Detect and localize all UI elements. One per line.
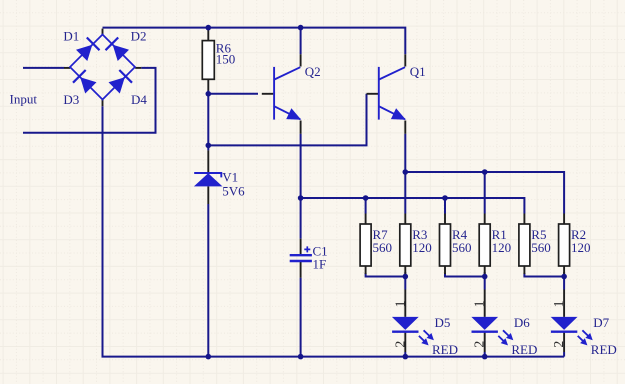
wire input lower lead to bridge right vertex bbox=[23, 68, 156, 133]
svg-text:1: 1 bbox=[551, 300, 566, 307]
wire R4 riser bbox=[444, 198, 446, 214]
pin R3 top bbox=[404, 214, 406, 225]
pin R4 bottom bbox=[444, 266, 446, 274]
pin V1 cathode bbox=[207, 150, 209, 172]
wire D6 cathode to bottom rail bbox=[484, 352, 486, 357]
diode D4 (bottom-right arm) bbox=[109, 70, 133, 94]
junction R6 bottom / Q2 base bbox=[206, 91, 212, 97]
pin Q1 collector bbox=[404, 54, 406, 66]
wire R6 bottom node vertical bbox=[207, 91, 209, 151]
svg-text:2: 2 bbox=[551, 341, 566, 348]
junction R6 top on rail bbox=[206, 25, 212, 31]
pin D7 anode (1) bbox=[563, 290, 565, 317]
wire C1 bottom to bottom rail bbox=[300, 278, 302, 357]
pin Q2 collector bbox=[300, 54, 302, 66]
pin C1 positive bbox=[300, 239, 302, 254]
svg-text:RED: RED bbox=[432, 342, 458, 357]
wire top rail from bridge to Q1 collector bbox=[103, 28, 406, 55]
pin R6 top bbox=[207, 29, 209, 41]
svg-text:D2: D2 bbox=[131, 28, 147, 43]
svg-text:RED: RED bbox=[591, 342, 617, 357]
wire V1 cathode-lead to bottom rail bbox=[207, 204, 209, 357]
svg-text:D1: D1 bbox=[63, 28, 79, 43]
svg-text:1F: 1F bbox=[313, 257, 327, 272]
wire Q2 emitter down to C1 bbox=[300, 134, 302, 239]
resistor R7 body bbox=[360, 224, 371, 266]
junction R1 on 120 bus bbox=[482, 169, 488, 175]
wire input upper lead bbox=[23, 67, 64, 69]
junction R7 on 560 bus bbox=[363, 195, 369, 201]
junction C1 on bottom rail bbox=[298, 354, 304, 360]
LED D7 body bbox=[551, 317, 593, 346]
wire R4 bottom to D6 node bbox=[445, 273, 485, 277]
pin D5 anode (1) bbox=[404, 290, 406, 317]
pin bridge right vertex bbox=[135, 67, 141, 69]
pin Q2 emitter bbox=[300, 121, 302, 134]
pin R5 top bbox=[523, 214, 525, 225]
wire R5 bottom to D7 node bbox=[524, 273, 564, 277]
pin Q1 base bbox=[367, 93, 379, 95]
pin R1 top bbox=[484, 214, 486, 225]
wire R2 bottom to D7 anode bbox=[563, 272, 565, 290]
pin R6 bottom bbox=[207, 79, 209, 90]
svg-text:RED: RED bbox=[511, 342, 537, 357]
svg-text:120: 120 bbox=[571, 240, 591, 255]
junction V1 on bottom rail bbox=[206, 354, 212, 360]
pin R7 top bbox=[365, 214, 367, 225]
resistor R4 body bbox=[440, 224, 451, 266]
wire Q2 collector to top rail bbox=[300, 28, 302, 55]
wire D5 cathode to bottom rail bbox=[404, 352, 406, 357]
junction C1 node on 560 bus bbox=[298, 195, 304, 201]
junction D5 anode node bbox=[403, 274, 409, 280]
svg-text:V1: V1 bbox=[222, 169, 238, 184]
LED D5 body bbox=[392, 317, 434, 346]
svg-text:D6: D6 bbox=[514, 315, 530, 330]
pin bridge left vertex bbox=[64, 67, 70, 69]
pin R2 bottom bbox=[563, 266, 565, 274]
pin R2 top bbox=[563, 214, 565, 225]
pin Q1 emitter bbox=[404, 121, 406, 134]
junction V1 / Q1 base bbox=[206, 143, 212, 149]
pin R7 bottom bbox=[365, 266, 367, 274]
pin bridge bottom vertex bbox=[102, 100, 104, 107]
pin R4 top bbox=[444, 214, 446, 225]
wire node R6 to Q2 base bbox=[208, 93, 258, 95]
pin D6 anode (1) bbox=[484, 290, 486, 317]
pin V1 anode bbox=[207, 186, 209, 204]
diode D3 (bottom-left arm) bbox=[73, 70, 97, 94]
resistor R5 body bbox=[519, 224, 530, 266]
wire node to Q1 base bbox=[208, 94, 366, 146]
LED D6 body bbox=[471, 317, 513, 346]
resistor R1 body bbox=[479, 224, 490, 266]
svg-text:1: 1 bbox=[392, 300, 407, 307]
svg-text:Q2: Q2 bbox=[305, 64, 321, 79]
transistor Q2 body bbox=[274, 67, 301, 120]
wire D7 cathode to bottom rail bbox=[563, 352, 565, 357]
bridge rectifier diamond outline bbox=[70, 35, 135, 100]
wire R7 riser bbox=[365, 198, 367, 214]
junction D6 on bottom rail bbox=[482, 354, 488, 360]
svg-text:1: 1 bbox=[472, 300, 487, 307]
pin bridge top vertex bbox=[102, 29, 104, 35]
pin R1 bottom bbox=[484, 266, 486, 274]
svg-text:120: 120 bbox=[412, 240, 432, 255]
svg-text:5V6: 5V6 bbox=[222, 183, 245, 198]
wire bridge bottom to ground rail (bottom bus) bbox=[103, 106, 565, 356]
diode D1 (top-left arm) bbox=[76, 38, 100, 62]
pin D6 cathode (2) bbox=[484, 332, 486, 352]
transistor Q1 body bbox=[379, 67, 406, 120]
resistor R2 body bbox=[559, 224, 570, 266]
svg-text:D3: D3 bbox=[63, 92, 79, 107]
wire R7 bottom to D5 node bbox=[366, 273, 406, 277]
svg-text:560: 560 bbox=[452, 240, 472, 255]
svg-text:560: 560 bbox=[373, 240, 393, 255]
svg-text:D7: D7 bbox=[593, 315, 609, 330]
junction D5 on bottom rail bbox=[403, 354, 409, 360]
resistor R3 body bbox=[400, 224, 411, 266]
svg-text:Input: Input bbox=[10, 92, 38, 107]
junction Q2 collector on rail bbox=[298, 25, 304, 31]
pin Q2 base bbox=[262, 93, 274, 95]
pin R5 bottom bbox=[523, 266, 525, 274]
svg-text:560: 560 bbox=[531, 240, 551, 255]
svg-text:D4: D4 bbox=[131, 92, 147, 107]
wire R3 bottom to D5 anode bbox=[404, 272, 406, 290]
wire R1 riser bbox=[484, 172, 486, 214]
junction D7 anode node bbox=[561, 274, 567, 280]
svg-text:D5: D5 bbox=[435, 315, 451, 330]
capacitor C1 body bbox=[290, 246, 312, 261]
diode D2 (top-right arm) bbox=[106, 38, 130, 62]
pin D7 cathode (2) bbox=[563, 332, 565, 352]
wire rail 560-ohm bus bbox=[301, 198, 525, 214]
pin R3 bottom bbox=[404, 266, 406, 274]
junction D6 anode node bbox=[482, 274, 488, 280]
wire rail 120-ohm bus bbox=[405, 172, 564, 214]
svg-text:2: 2 bbox=[392, 341, 407, 348]
pin D5 cathode (2) bbox=[404, 332, 406, 352]
junction Q1 emitter on 120 bus bbox=[403, 169, 409, 175]
svg-text:150: 150 bbox=[216, 51, 236, 66]
pin C1 negative bbox=[300, 262, 302, 278]
wire Q1 emitter down to R3 bbox=[404, 134, 406, 214]
svg-text:2: 2 bbox=[472, 341, 487, 348]
svg-text:120: 120 bbox=[492, 240, 512, 255]
wire R1 bottom to D6 anode bbox=[484, 272, 486, 290]
resistor R6 body bbox=[202, 41, 214, 80]
svg-text:Q1: Q1 bbox=[410, 64, 426, 79]
junction R4 on 560 bus bbox=[442, 195, 448, 201]
zener diode V1 body bbox=[194, 173, 223, 186]
